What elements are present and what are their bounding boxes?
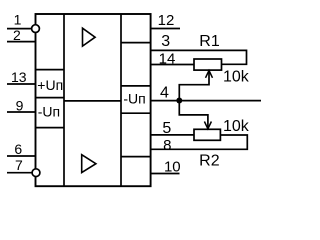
inversion circle at pin 1 on IC edge <box>32 25 40 33</box>
svg-text:5: 5 <box>162 120 171 137</box>
wire pin 4 (to -Up net) <box>151 100 261 102</box>
svg-text:12: 12 <box>158 12 175 29</box>
IC inner right column divider line <box>120 14 122 186</box>
wire pin 8 to R2 right terminal <box>151 135 248 149</box>
IC inner left column divider line <box>63 14 65 186</box>
right column cell divider (below right -Up cell) <box>121 112 151 114</box>
svg-text:1: 1 <box>14 11 22 27</box>
svg-text:14: 14 <box>159 50 176 67</box>
wire pin 5 to R2 left terminal <box>151 134 194 136</box>
wire pin 3 to R1 right terminal <box>151 50 247 64</box>
middle divider between the two op-amp halves <box>64 100 121 102</box>
resistor R1 body <box>194 59 222 70</box>
svg-text:3: 3 <box>161 33 170 50</box>
op-amp triangle symbol A2 <box>82 155 96 173</box>
svg-text:-Uп: -Uп <box>123 90 145 106</box>
svg-text:R2: R2 <box>199 153 220 170</box>
wire pin 14 to R1 left terminal <box>151 64 194 66</box>
svg-text:10: 10 <box>164 158 181 175</box>
svg-text:4: 4 <box>160 84 169 101</box>
left column cell divider (below +Up cell) <box>36 97 65 99</box>
svg-text:+Uп: +Uп <box>37 77 63 93</box>
wire pin 7 <box>7 172 32 174</box>
R2 wiper arrow from node at pin 4 <box>179 101 208 129</box>
svg-text:13: 13 <box>11 69 27 85</box>
right column cell divider (above right -Up cell) <box>121 85 151 87</box>
right column cell divider (below pin 8) <box>121 156 151 158</box>
wire pin 2 <box>7 41 36 43</box>
left column cell divider (below -Up cell) <box>36 127 65 129</box>
wire pin 10 stub <box>151 173 180 175</box>
svg-text:2: 2 <box>13 27 21 43</box>
junction dot on pin 4 wire <box>176 98 182 104</box>
svg-text:10k: 10k <box>223 118 250 135</box>
wire pin 9 <box>7 111 36 113</box>
svg-text:R1: R1 <box>199 33 220 50</box>
svg-text:9: 9 <box>16 97 24 113</box>
svg-text:-Uп: -Uп <box>38 103 60 119</box>
wire pin 6 <box>7 155 36 157</box>
svg-text:10k: 10k <box>223 69 250 86</box>
right column cell divider (below pin 12) <box>121 42 151 44</box>
R1 wiper arrowhead <box>206 71 213 78</box>
R2 wiper arrowhead <box>204 122 211 129</box>
left column cell divider (below pins 1,2) <box>36 69 65 71</box>
wire pin 1 <box>7 28 32 30</box>
svg-text:7: 7 <box>15 157 23 173</box>
wire pin 12 stub <box>151 28 180 30</box>
svg-text:8: 8 <box>163 137 171 154</box>
svg-text:6: 6 <box>14 141 22 157</box>
inversion circle at pin 7 on IC edge <box>32 169 40 177</box>
resistor R2 body <box>194 129 220 140</box>
op-amp triangle symbol A1 <box>83 28 96 46</box>
R1 wiper arrow to node at pin 4 <box>179 71 209 101</box>
wire pin 13 <box>7 83 36 85</box>
op-amp IC body outline <box>36 14 151 186</box>
